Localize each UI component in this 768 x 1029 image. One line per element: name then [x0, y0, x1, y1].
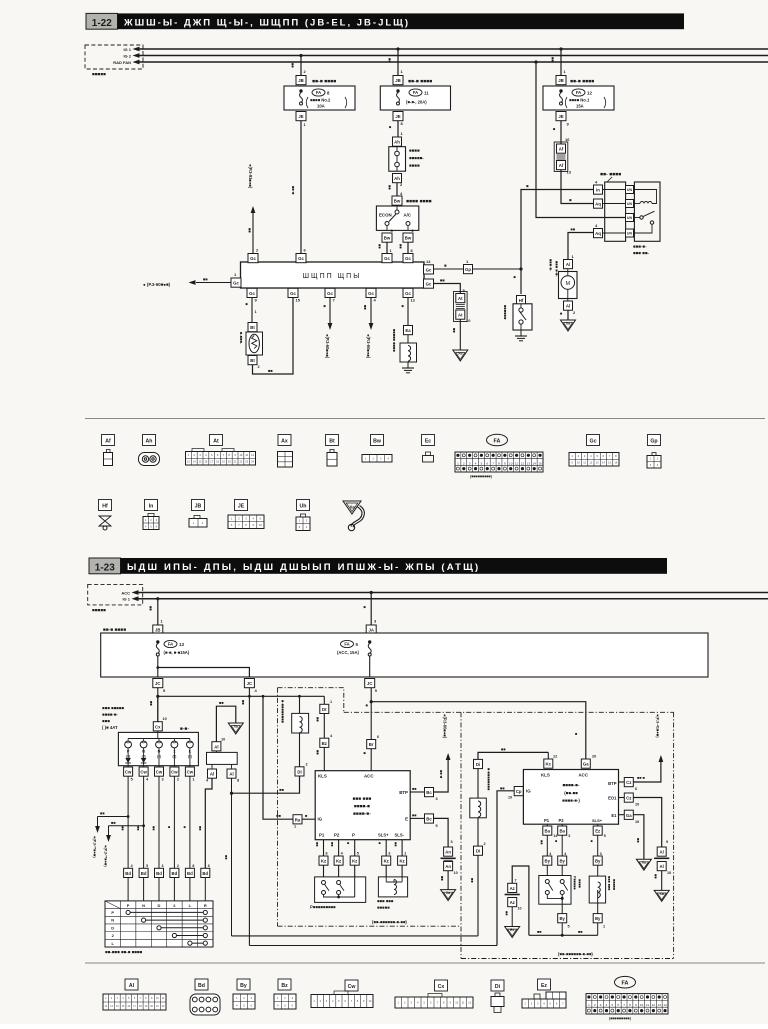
wire Bc to An ground path [434, 818, 453, 847]
svg-text:FA: FA [622, 981, 629, 987]
svg-text:9: 9 [666, 840, 668, 844]
svg-text:10: 10 [509, 461, 513, 465]
svg-text:Cw: Cw [156, 770, 163, 775]
svg-text:■■■■: ■■■■ [409, 148, 420, 153]
wire lamp L down [189, 748, 191, 767]
svg-text:4: 4 [549, 852, 551, 856]
connector Bc BTP [425, 788, 438, 802]
connector legend FA 2 [586, 976, 668, 1020]
wire L1b ground net [529, 930, 598, 935]
connector Al illumination out8 [227, 769, 239, 783]
wire body BTP arrow [619, 714, 664, 791]
connector Gc amp right pin14 [424, 259, 434, 274]
svg-text:■■■■■: ■■■■■ [377, 905, 390, 910]
connector Bd col2 [139, 864, 148, 878]
node power-source dashed box 2 [88, 584, 143, 612]
svg-text:E: E [405, 816, 408, 821]
svg-text:Ec: Ec [425, 439, 431, 445]
svg-text:Bw: Bw [394, 199, 401, 204]
svg-text:10: 10 [221, 738, 225, 742]
svg-text:■■■ ■■■■■: ■■■ ■■■■■ [102, 706, 124, 711]
svg-text:P: P [127, 903, 130, 908]
connector Bz shift lock [320, 734, 333, 747]
connector Bc E [425, 814, 438, 828]
svg-text:JB: JB [195, 504, 202, 510]
wire meter L to Bd [182, 776, 190, 868]
wire motor to ground [559, 310, 568, 320]
svg-text:●(P.3-**■●■): ●(P.3-**■●■) [93, 836, 98, 858]
svg-text:Bc: Bc [426, 817, 432, 822]
svg-text:Ga: Ga [626, 813, 632, 818]
svg-text:Bt: Bt [250, 358, 255, 363]
svg-text:Ah: Ah [394, 140, 400, 145]
fuse FA8 engine No.2 10A [299, 89, 346, 109]
svg-text:■■■■■-: ■■■■■- [409, 156, 424, 161]
connector Gc amp bottom pin4 [366, 288, 377, 302]
wire branch green-black arrow [104, 820, 146, 868]
wire shift computer bottom col 1 [315, 840, 328, 856]
svg-text:■■■■-■-: ■■■■-■- [563, 783, 580, 788]
svg-text:ACC: ACC [364, 774, 374, 779]
svg-text:P2: P2 [559, 818, 565, 823]
wire drop to fuse block 1 [291, 54, 307, 76]
svg-text:IG 2: IG 2 [123, 54, 131, 59]
separator rule 2 [85, 962, 765, 964]
svg-text:15: 15 [538, 461, 542, 465]
svg-text:ЖШШ-Ы- ДЖП Щ-Ы-, ШЩПП (JB-EL,: ЖШШ-Ы- ДЖП Щ-Ы-, ШЩПП (JB-EL, JB-JLЩ) [123, 18, 410, 29]
wire gauge net horizontal [149, 688, 324, 722]
svg-text:ЫДШ ИПЫ- ДПЫ, ЫДШ ДШЫЫП ИП: ЫДШ ИПЫ- ДПЫ, ЫДШ ДШЫЫП ИПШЖ-Ы- ЖПЫ (ATЩ… [127, 562, 480, 573]
wire amp pin2 arrow to P.3-93 [248, 164, 256, 254]
solenoid shift lock B [589, 865, 616, 935]
wire Ez to By col 3 [590, 835, 602, 856]
svg-text:Bw: Bw [384, 236, 391, 241]
svg-text:FA: FA [576, 90, 581, 95]
connector Bd col5 [185, 864, 194, 878]
ground Xa motor [561, 320, 576, 331]
connector By body col 1 [543, 856, 552, 865]
connector legend Hf [99, 500, 112, 531]
svg-text:■■■: ■■■ [102, 719, 110, 724]
svg-text:Bd: Bd [141, 871, 147, 876]
connector Ah dual pressure upper [393, 137, 402, 146]
svg-text:1: 1 [192, 778, 194, 782]
svg-text:■■: ■■ [291, 63, 296, 68]
svg-text:JE: JE [395, 114, 400, 119]
connector legend Ez [522, 979, 566, 1008]
svg-text:Cw: Cw [140, 770, 147, 775]
svg-text:●(P.3-60■●■): ●(P.3-60■●■) [443, 714, 448, 739]
svg-text:■■: ■■ [551, 57, 556, 62]
connector Al motor top [564, 260, 573, 269]
svg-text:■■: ■■ [412, 787, 417, 791]
connector Aq relay coil [594, 199, 603, 208]
wire amp left arrow to P.3-60 [143, 277, 231, 288]
svg-text:13: 13 [179, 642, 184, 647]
node variant box with body controller [344, 712, 674, 958]
svg-text:■■■■■ ■■■■: ■■■■■ ■■■■ [392, 329, 397, 352]
svg-text:■■: ■■ [440, 876, 445, 881]
svg-text:(■■■■■■■■■): (■■■■■■■■■) [470, 475, 493, 479]
svg-text:In: In [596, 188, 600, 193]
dual pressure switch [389, 147, 424, 172]
connector Bw AC switch top [392, 196, 432, 205]
connector legend Di [491, 980, 504, 1013]
svg-text:2: 2 [306, 763, 308, 767]
svg-text:Bd: Bd [187, 871, 193, 876]
connector By body col 3 [593, 856, 602, 865]
svg-text:SLS+: SLS+ [592, 818, 603, 823]
svg-text:14: 14 [426, 259, 431, 264]
svg-text:5: 5 [131, 778, 133, 782]
svg-text:JE: JE [238, 504, 245, 510]
svg-text:■■: ■■ [500, 786, 505, 791]
switch ECON-A/C [376, 206, 418, 231]
svg-text:N: N [111, 918, 114, 923]
connector Ba body col 1 [543, 826, 558, 838]
svg-text:Gc: Gc [590, 439, 597, 445]
wire ACC bus [132, 590, 768, 595]
svg-text:8: 8 [237, 779, 239, 783]
wire Kz to P range switch col 2 [338, 865, 340, 877]
svg-text:■■: ■■ [224, 855, 228, 860]
svg-text:Gc: Gc [233, 281, 239, 286]
lamp P [125, 739, 132, 759]
svg-text:■■·■: ■■·■ [439, 770, 444, 779]
wire body IG down to feed [497, 791, 514, 946]
svg-text:10: 10 [518, 907, 522, 911]
svg-text:13: 13 [567, 170, 572, 175]
svg-text:5: 5 [604, 834, 606, 838]
svg-text:Aq: Aq [595, 202, 601, 207]
wire body bottom col 3 [597, 824, 599, 826]
svg-text:Gc: Gc [250, 256, 256, 261]
wire Bd col3 to table [158, 878, 160, 901]
svg-text:Dt: Dt [322, 707, 327, 712]
svg-text:Cw: Cw [171, 770, 178, 775]
svg-text:P: P [111, 910, 114, 915]
wire amp right to At connector [433, 278, 466, 294]
svg-text:IG 1: IG 1 [123, 47, 131, 52]
wire IG1 bus [133, 47, 768, 52]
connector JC pin5 [153, 679, 166, 694]
svg-text:■■■■-■-): ■■■■-■-) [562, 798, 580, 803]
connector legend In [143, 500, 159, 530]
switch water temperature [503, 304, 532, 330]
wire motor to relay Aq4 [568, 227, 594, 260]
connector Gc amp top pin6 [296, 254, 306, 263]
svg-text:IG 1: IG 1 [122, 597, 130, 602]
svg-text:10: 10 [466, 318, 471, 323]
svg-text:Bd: Bd [198, 983, 205, 989]
connector Ra shift IG [293, 815, 302, 829]
svg-text:■■■■ No.1: ■■■■ No.1 [569, 98, 590, 103]
svg-text:8: 8 [192, 864, 194, 868]
connector Al illumination in [212, 742, 221, 751]
svg-text:JE: JE [298, 114, 303, 119]
svg-text:Ah: Ah [394, 176, 400, 181]
ground Xa illumination [228, 723, 243, 734]
connector Az pair [505, 883, 522, 910]
svg-text:P2: P2 [334, 833, 340, 838]
wire Az loop [512, 866, 529, 935]
svg-text:JC: JC [247, 681, 253, 686]
svg-text:Ex: Ex [510, 928, 514, 932]
svg-text:■■: ■■ [537, 930, 542, 934]
fuse FA13 gauge turn 15A [156, 640, 249, 677]
connector Kz col 2 [334, 856, 343, 865]
connector Cx meter [153, 722, 162, 731]
magnet clutch coil [392, 329, 417, 368]
svg-text:FA: FA [168, 642, 173, 647]
svg-text:UN: UN [627, 216, 632, 220]
svg-text:By: By [595, 916, 601, 921]
svg-text:Di: Di [495, 984, 501, 990]
connector Gc amp top pin3 [382, 254, 392, 263]
motor radiator fan [549, 259, 578, 301]
svg-text:JC: JC [367, 681, 373, 686]
svg-text:D: D [158, 903, 161, 908]
connector Cw meter pin5 [124, 767, 133, 782]
connector Ez body col 3 [593, 826, 606, 838]
svg-text:UN: UN [627, 188, 632, 192]
svg-text:■■■ ■■■: ■■■ ■■■ [353, 797, 372, 802]
svg-text:Cz: Cz [626, 780, 631, 785]
svg-text:An: An [445, 850, 451, 855]
svg-text:12: 12 [521, 461, 525, 465]
connector Bw A/C out [403, 228, 415, 242]
connector Bd col1 [124, 864, 133, 878]
svg-text:An: An [445, 864, 451, 869]
svg-text:FA: FA [413, 90, 418, 95]
svg-text:■■■■ ■■■■: ■■■■ ■■■■ [406, 199, 432, 205]
connector Kz SLS 2 [398, 856, 407, 865]
svg-text:4: 4 [564, 852, 566, 856]
svg-text:(■■-■■■■■■-■-■■): (■■-■■■■■■-■-■■) [372, 920, 407, 925]
svg-text:11: 11 [646, 1003, 649, 1007]
wire amp pin9 to thermistor [245, 298, 257, 323]
wire Bc arrow up to P.3-60 [434, 714, 451, 792]
svg-text:Ba: Ba [545, 829, 551, 834]
svg-text:■■■■-■-: ■■■■-■- [353, 812, 371, 817]
connector legend Ax [278, 435, 293, 468]
svg-text:3: 3 [162, 864, 164, 868]
svg-text:IG: IG [526, 789, 531, 794]
svg-text:■■: ■■ [330, 842, 334, 847]
wire Ra to IG pin [302, 813, 315, 819]
wire Dt to Bz [316, 714, 325, 739]
solenoid shift lock [377, 877, 408, 910]
svg-text:■■: ■■ [501, 746, 506, 751]
connector Kz col 3 [350, 856, 359, 865]
svg-text:Bz: Bz [281, 983, 288, 989]
svg-text:Gc: Gc [405, 291, 411, 296]
svg-text:Gp: Gp [650, 439, 657, 445]
svg-text:1: 1 [255, 310, 257, 314]
connector legend Bd [190, 979, 220, 1015]
ground Xa body EO1 [654, 890, 669, 901]
connector legend Bz [274, 979, 296, 1009]
connector Bd col4 [170, 864, 179, 878]
svg-text:Ez: Ez [541, 983, 547, 989]
connector legend Xa ground [343, 501, 364, 531]
wire BTP to Bc [410, 787, 424, 792]
svg-text:Kz: Kz [384, 859, 389, 864]
wire amp pin14 to Gp [433, 263, 463, 269]
svg-text:Ra: Ra [295, 817, 301, 822]
connector legend At [186, 435, 256, 466]
svg-text:■■: ■■ [578, 930, 583, 934]
connector Gc amp top pin2b [403, 254, 413, 263]
connector Bt thermistor bottom [248, 356, 260, 370]
wire drop to fuse block 2 [388, 47, 404, 75]
svg-text:■■: ■■ [121, 826, 125, 831]
svg-text:UN: UN [627, 231, 632, 235]
svg-text:10: 10 [667, 871, 671, 875]
computer body integrated controller box [523, 770, 618, 825]
svg-text:2: 2 [484, 842, 486, 846]
svg-text:■■■■: ■■■■ [578, 879, 582, 888]
wire junction to water temp switch [513, 269, 522, 294]
svg-text:Cw: Cw [348, 984, 357, 990]
svg-text:■■■■■: ■■■■■ [92, 72, 106, 77]
svg-text:■: ■ [590, 840, 594, 842]
svg-text:Az: Az [510, 886, 515, 891]
connector Bw ECON out [382, 228, 394, 242]
connector legend Af [102, 435, 115, 466]
svg-text:■■: ■■ [149, 701, 154, 706]
connector JC pin4 [244, 679, 257, 694]
ground water temp switch [515, 330, 527, 341]
svg-text:■■■-■-: ■■■-■- [633, 244, 647, 249]
node variant box without body controller [278, 688, 462, 959]
svg-text:■■■ ■■■: ■■■ ■■■ [377, 899, 394, 904]
svg-text:FA: FA [316, 90, 321, 95]
connector By body col 2 [558, 856, 567, 865]
shift lock control computer box [315, 771, 410, 840]
connector Kz SLS 1 [382, 856, 391, 865]
svg-text:By: By [559, 916, 565, 921]
svg-text:6: 6 [377, 735, 379, 739]
wire ECON to amp pin3 [378, 242, 392, 254]
svg-text:■■·■: ■■·■ [291, 186, 296, 195]
connector legend FA [455, 434, 543, 478]
solenoid key lock [281, 695, 309, 767]
svg-text:■■■■ No.2: ■■■■ No.2 [310, 98, 331, 103]
svg-text:12: 12 [652, 1003, 656, 1007]
wire body bottom col 2 [561, 824, 563, 826]
svg-text:Gc: Gc [405, 256, 411, 261]
svg-text:■■: ■■ [100, 811, 105, 816]
svg-text:(■■■■■■■■■): (■■■■■■■■■) [609, 1017, 632, 1021]
wire Bd col2 to table [143, 878, 145, 901]
wire Bd col1 to table [127, 878, 129, 901]
svg-text:2: 2 [177, 778, 179, 782]
connector Hf water temp [517, 296, 526, 305]
wire Gp to junction and relay In [473, 184, 594, 271]
svg-text:1: 1 [603, 925, 605, 929]
svg-text:Gp: Gp [465, 267, 471, 272]
wire drop ACC to fuse FA5 [363, 591, 378, 625]
lamp 2 [171, 739, 178, 759]
svg-text:By: By [595, 859, 601, 864]
svg-text:SLS+: SLS+ [378, 833, 389, 838]
switch neutral start table [105, 901, 213, 955]
connector An pair inline [441, 847, 458, 875]
svg-text:( )■ 4AT: ( )■ 4AT [102, 725, 118, 730]
connector Gp body [464, 259, 473, 274]
lamp D [156, 739, 163, 759]
wire meter N to Bd [136, 776, 144, 868]
connector Al body EO1 pair [654, 847, 671, 875]
relay block housing [605, 182, 626, 241]
svg-text:At: At [213, 439, 219, 445]
wire SLS col 2 [394, 840, 407, 856]
wire shift computer bottom col 3 [346, 840, 359, 856]
ground Xa shift lock E [441, 890, 456, 901]
wire lamp D down [158, 748, 160, 767]
svg-text:Al: Al [660, 850, 664, 855]
connector Gc amp bottom pin9 [247, 288, 258, 302]
connector Gc amp right white-black [424, 279, 434, 288]
svg-text:Bt: Bt [250, 325, 255, 330]
svg-text:N: N [142, 903, 145, 908]
svg-text:Bz: Bz [322, 741, 327, 746]
svg-text:■■: ■■ [136, 826, 140, 831]
svg-text:■■-■ ■■■■: ■■-■ ■■■■ [312, 79, 336, 85]
connector legend Gp [647, 435, 661, 469]
svg-text:■■-■■■ ■■-■ ■■■■: ■■-■■■ ■■-■ ■■■■ [105, 950, 143, 955]
connector Bd col3 [155, 864, 164, 878]
svg-text:3: 3 [388, 852, 390, 856]
svg-text:JA: JA [368, 628, 374, 633]
wire Bd col4 to table [173, 878, 175, 901]
svg-text:Uh: Uh [300, 504, 307, 510]
svg-text:■-■■■■■■■■: ■-■■■■■■■■ [487, 768, 492, 791]
svg-text:Af: Af [105, 439, 111, 445]
connector At pair inline [454, 292, 472, 324]
op-amp air conditioner amplifier box [241, 262, 425, 288]
connector Al motor bottom [564, 301, 577, 315]
connector Cw meter pin3 [155, 767, 164, 782]
svg-text:10: 10 [640, 1003, 644, 1007]
wire fuse2 to dual pressure switch [388, 121, 404, 137]
connector By solenoid B [593, 914, 605, 929]
wire meter P to Bd [121, 776, 129, 868]
svg-text:Al: Al [210, 772, 214, 777]
svg-text:■-■-: ■-■- [180, 727, 189, 732]
svg-text:2: 2 [258, 365, 260, 369]
wire SLS col 1 [378, 840, 391, 856]
wire Ba to By col 2 [554, 835, 566, 856]
wire A/C to amp pin2 [399, 242, 413, 254]
svg-text:■-■■■■■■■■: ■-■■■■■■■■ [281, 700, 286, 724]
svg-text:11: 11 [424, 90, 429, 95]
wire KLS feed via Dt [323, 696, 325, 704]
connector Kz col 1 [319, 856, 328, 865]
wire body E1 to ground [619, 810, 644, 859]
svg-text:■■: ■■ [378, 244, 383, 249]
svg-text:Gc: Gc [426, 267, 432, 272]
svg-text:6: 6 [208, 864, 210, 868]
svg-text:15A: 15A [576, 104, 584, 109]
svg-text:12: 12 [553, 755, 557, 759]
svg-text:Gc: Gc [368, 291, 374, 296]
connector Gc amp bottom pin15 [288, 288, 301, 302]
wire Kz to solenoid 1 [385, 865, 387, 877]
svg-text:P: P [352, 833, 355, 838]
connector Cw meter pin1 [185, 767, 194, 782]
